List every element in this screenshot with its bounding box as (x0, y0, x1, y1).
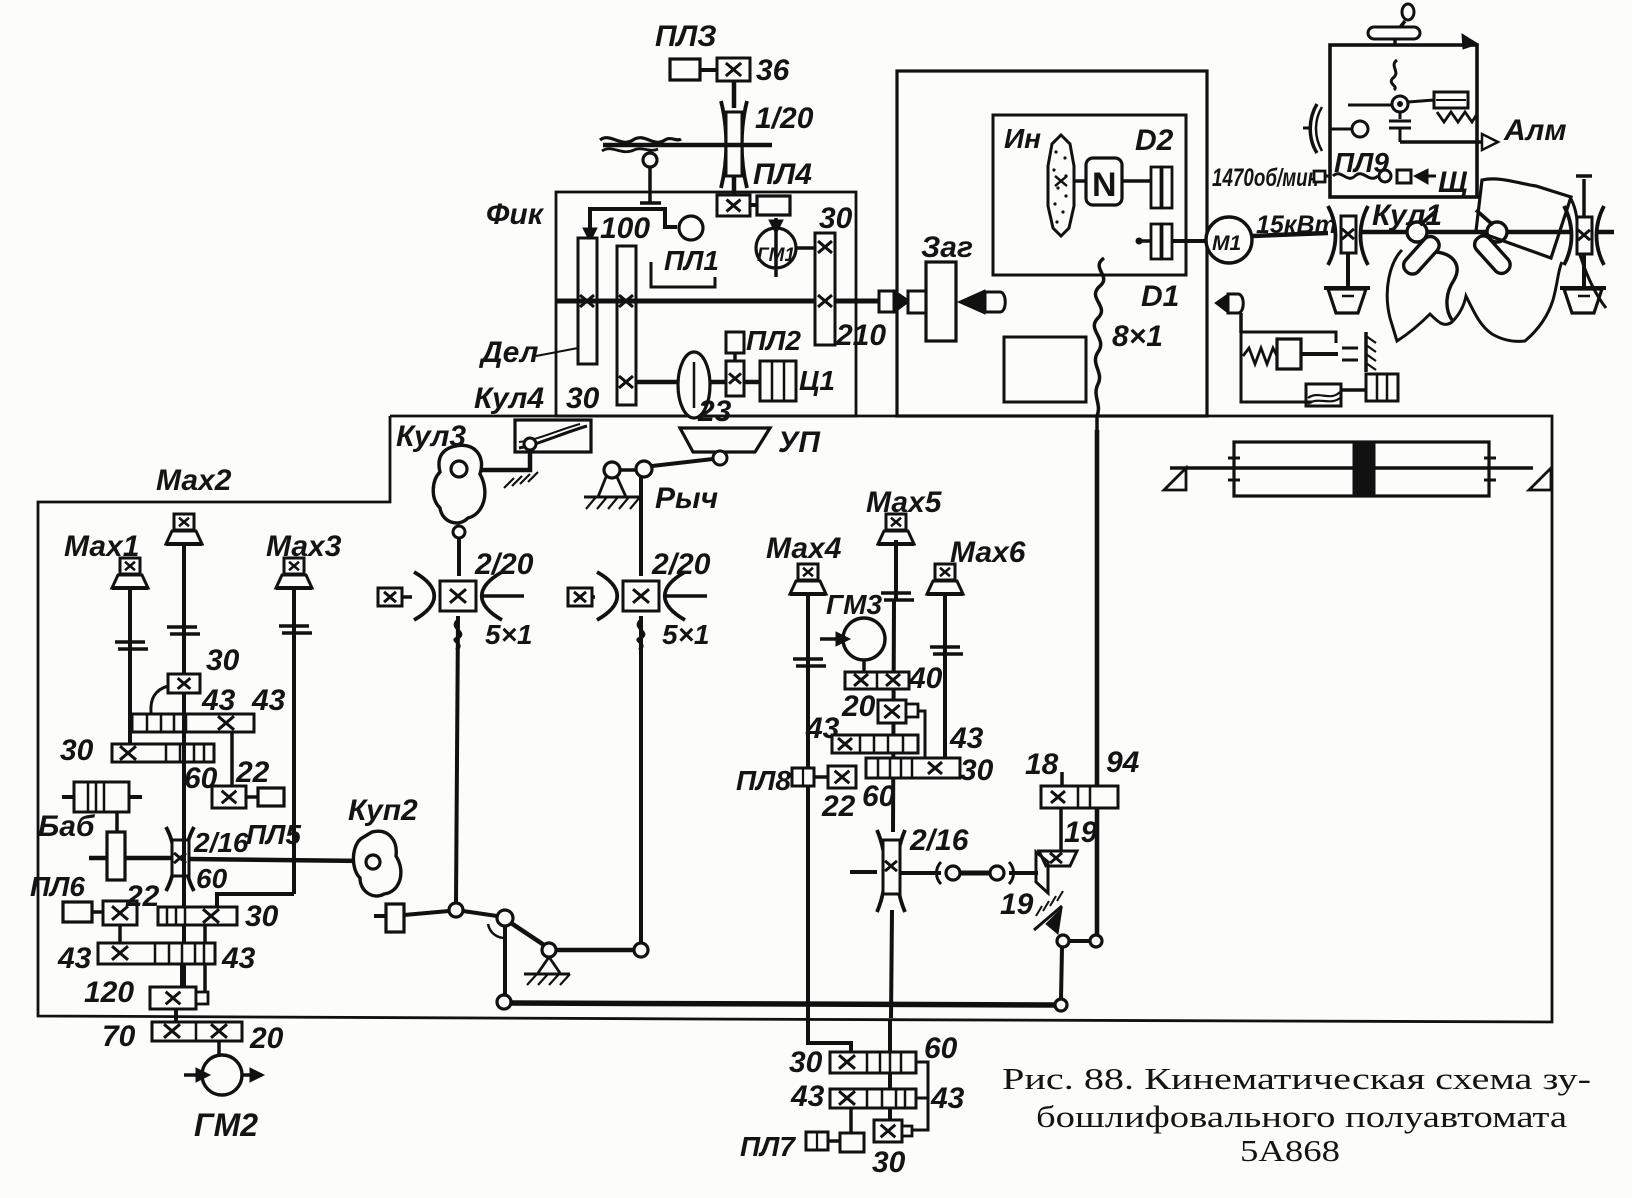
follower band 2 (1471, 233, 1513, 277)
wire dog clutch shaft (850, 870, 877, 874)
wire stub (592, 595, 595, 599)
svg-text:Баб: Баб (38, 810, 96, 843)
break Мах2 (167, 625, 197, 629)
svg-text:30: 30 (819, 202, 853, 235)
link joint left (497, 995, 511, 1009)
contact square (1397, 170, 1411, 183)
wire mid shaft to bottom gears (888, 1019, 892, 1122)
pivot circle Кул3 (451, 461, 467, 477)
svg-text:Мах2: Мах2 (156, 464, 232, 497)
break Мах4 (793, 657, 823, 661)
svg-text:Алм: Алм (1503, 114, 1567, 147)
svg-text:1470об/мин: 1470об/мин (1212, 164, 1319, 192)
break Мах6 (930, 645, 960, 649)
svg-text:ПЛ5: ПЛ5 (246, 819, 301, 850)
svg-text:Рис. 88. Кинематическая схема: Рис. 88. Кинематическая схема зу- (1002, 1061, 1591, 1096)
gear column 30/210 (815, 233, 835, 345)
capacitor contact (1399, 112, 1402, 119)
cam Кул3 kidney (433, 445, 485, 523)
hydraulic motor ГМ2 (202, 1055, 242, 1095)
master cam blob (1387, 250, 1562, 341)
wheel side bracket (1310, 104, 1317, 153)
wire follower shaft (374, 914, 386, 918)
template pan УП (680, 428, 770, 452)
worm column 2/20 (597, 572, 617, 620)
svg-text:22: 22 (821, 790, 856, 823)
gear row 30-60 (112, 744, 214, 762)
support anvil left (1328, 289, 1366, 313)
crank joint F (634, 943, 648, 957)
handwheel Мах6 (935, 564, 955, 580)
support anvil right (1564, 289, 1602, 313)
main horizontal shaft to Куп2 (89, 856, 107, 861)
svg-text:43: 43 (251, 684, 286, 717)
svg-text:60: 60 (924, 1032, 958, 1065)
quill cone (1215, 294, 1228, 313)
right bevel column (1564, 206, 1572, 265)
link circle left (604, 462, 620, 478)
break Мах5 (881, 591, 911, 595)
long link bar (511, 1003, 1055, 1005)
pivot circle below Кул3 (453, 526, 465, 538)
cam drive Кул1 bevel (1328, 206, 1336, 265)
wire to piston 3-cell (1341, 388, 1366, 392)
wire stub (402, 595, 412, 599)
svg-text:ГМ1: ГМ1 (757, 245, 795, 266)
gear 36 on vertical shaft (717, 58, 750, 81)
handwheel Мах5 (886, 514, 906, 530)
frame: big middle enclosure box (38, 416, 1552, 1022)
svg-text:ПЛ1: ПЛ1 (664, 245, 719, 276)
wire Мах1 shaft (128, 588, 132, 748)
gear row 18/94 (1041, 786, 1118, 808)
hatched rocker support (1034, 906, 1062, 930)
svg-text:19: 19 (1000, 888, 1034, 921)
wire to Алм with open arrow (1400, 140, 1482, 144)
wire stub above 18 (1060, 772, 1064, 786)
hydraulic cylinder (1234, 442, 1489, 496)
wire N box to D2 (1122, 179, 1151, 183)
link crank to D (511, 923, 544, 945)
svg-text:210: 210 (835, 319, 886, 352)
hatch support near Кул4 (504, 478, 514, 488)
gear column D2 (1151, 167, 1161, 208)
svg-text:ПЛ2: ПЛ2 (746, 325, 801, 356)
hook curve (151, 686, 168, 713)
contact circle (1379, 170, 1391, 182)
svg-text:30: 30 (960, 754, 994, 787)
svg-text:ПЛ4: ПЛ4 (753, 158, 812, 191)
svg-text:43: 43 (57, 942, 92, 975)
wire 43 down to ПЛ7 (849, 1108, 853, 1133)
svg-text:43: 43 (930, 1082, 965, 1115)
svg-text:М1: М1 (1212, 232, 1241, 255)
bent lever flag (1039, 851, 1077, 866)
wire quill down to frame (1239, 313, 1243, 333)
wire Мах3 elbow to gear 30 (217, 894, 294, 908)
svg-text:30: 30 (872, 1146, 906, 1179)
svg-text:43: 43 (221, 942, 256, 975)
wire right arm to damper (1408, 100, 1434, 102)
link A-B (1069, 939, 1090, 943)
wire left arm (1348, 104, 1392, 107)
gear ПЛ8 (828, 766, 856, 788)
wire 43 down to ПЛ5 (230, 732, 234, 788)
svg-text:ГМ2: ГМ2 (194, 1107, 258, 1143)
wire D1 shaft to M1 (1136, 239, 1151, 243)
gear ПЛ5 (212, 786, 246, 808)
lever link bar (652, 459, 713, 466)
gear row 30 mid (866, 758, 960, 778)
stub square on left edge (1314, 171, 1325, 182)
gear ПЛ6 (103, 901, 137, 925)
main shaft of dividing train (556, 299, 856, 304)
svg-text:20: 20 (841, 690, 876, 723)
roller circle (1352, 121, 1368, 137)
fixing plunger circle (643, 153, 657, 167)
wire right column up (1582, 179, 1586, 217)
cam box Кул4 (515, 420, 591, 452)
wire stub to 120 tab (203, 964, 207, 996)
hatched wall (1364, 332, 1368, 372)
leaf spring pack (1306, 384, 1341, 406)
wire to ГМ2 (217, 1041, 221, 1055)
svg-text:Кул4: Кул4 (474, 382, 544, 415)
wire ПЛ6 to 43 row (118, 925, 122, 944)
wavy wire in box (1391, 60, 1397, 90)
gear row 30-60 bottom (830, 1052, 916, 1073)
handwheel Мах1 (120, 558, 140, 574)
lever support Рыч (598, 477, 626, 497)
dog clutch (937, 862, 942, 884)
cylinder Ц1 (hatched) (760, 361, 796, 401)
svg-text:УП: УП (778, 426, 821, 459)
gear row 30 (lower left) (158, 907, 237, 925)
handwheel Мах4 (798, 564, 818, 580)
hydraulic motor ГМ3 (843, 618, 885, 660)
handwheel Мах2 (174, 514, 194, 530)
gear sleeve 100 (tall, two meshes) (617, 246, 636, 405)
svg-text:1/20: 1/20 (755, 102, 814, 135)
svg-text:ПЛ8: ПЛ8 (736, 765, 791, 796)
svg-text:30: 30 (566, 382, 600, 415)
coupling to workpiece (879, 291, 894, 312)
cap ticks left (1228, 457, 1240, 460)
wire Мах2 shaft upper (182, 544, 186, 676)
rocker joint B (1090, 935, 1102, 947)
grinding wheel (dotted lens) (1048, 135, 1074, 236)
svg-text:ПЛ7: ПЛ7 (740, 1131, 796, 1162)
svg-text:2/20: 2/20 (651, 548, 711, 581)
bracket under ПЛ1 (651, 262, 715, 287)
wire Мах2 shaft lower (182, 692, 186, 987)
svg-text:5А868: 5А868 (1240, 1133, 1340, 1168)
piston ПЛ6 (63, 902, 92, 922)
index disc (678, 352, 710, 418)
svg-text:ПЛ6: ПЛ6 (30, 871, 85, 902)
wire Кул3 to Кул4 (466, 450, 530, 470)
link joint at bar (1055, 999, 1067, 1011)
wire Мах3 shaft (292, 588, 296, 894)
piston ПЛ2 (726, 332, 744, 353)
support under D (538, 957, 549, 973)
knob on top (1402, 4, 1414, 20)
svg-text:5×1: 5×1 (662, 619, 710, 650)
svg-text:2/20: 2/20 (474, 548, 534, 581)
wire long vertical feed shaft (1095, 430, 1100, 936)
svg-text:Ин: Ин (1004, 123, 1041, 154)
svg-text:ПЛЗ: ПЛЗ (655, 20, 716, 53)
svg-text:43: 43 (949, 722, 984, 755)
gear square with X (378, 588, 402, 606)
svg-text:Заг: Заг (921, 231, 973, 264)
worm column 2/20 (414, 572, 434, 620)
wire mid vertical below 2/16 (891, 910, 892, 1018)
break squiggle (455, 620, 461, 650)
follower rect under Куп2 (386, 904, 404, 932)
piston ПЛЗ (670, 59, 700, 80)
svg-text:60: 60 (196, 863, 228, 894)
gear ПЛ2 (726, 361, 744, 396)
svg-text:43: 43 (790, 1080, 825, 1113)
gap ticks (1342, 347, 1358, 350)
svg-text:36: 36 (756, 54, 790, 87)
spring (1243, 348, 1277, 364)
flexible shaft wavy symbol (600, 138, 681, 143)
piston rod (1301, 352, 1338, 356)
wire Мах6 shaft (943, 594, 947, 758)
rocker joint A (1057, 935, 1069, 947)
wire right column down (1582, 253, 1586, 289)
follower roller 1 (1407, 222, 1427, 242)
svg-text:19: 19 (1064, 816, 1098, 849)
svg-text:Фик: Фик (486, 198, 545, 231)
break squiggle (638, 620, 644, 650)
follower stick 2 (1476, 210, 1493, 225)
svg-text:ГМ3: ГМ3 (826, 589, 883, 620)
svg-text:23: 23 (697, 395, 732, 428)
valve triangle (1414, 169, 1428, 184)
gear 30 bottom (874, 1120, 902, 1142)
hydraulic motor ГМ1 (756, 228, 796, 268)
break Мах1 (115, 640, 145, 644)
svg-text:Ц1: Ц1 (799, 365, 835, 396)
table rect below (1004, 337, 1086, 402)
cap ticks right (1484, 457, 1496, 460)
piston (1277, 339, 1301, 369)
svg-text:22: 22 (235, 756, 270, 789)
piston ПЛ8 (792, 768, 814, 786)
pivot circle Куп2 (366, 855, 380, 869)
wire shaft to roller 1 (1362, 230, 1408, 235)
frame: PL9 dresser box (1330, 45, 1477, 197)
svg-text:2/16: 2/16 (193, 827, 249, 858)
svg-text:Щ: Щ (1438, 166, 1468, 199)
svg-text:Куп2: Куп2 (348, 794, 418, 827)
svg-text:5×1: 5×1 (485, 619, 533, 650)
wire to 70/20 row (174, 1009, 178, 1022)
gear square with X (568, 588, 592, 606)
workpiece Заг rect (926, 262, 956, 341)
motor N box (1086, 158, 1122, 205)
plunger circle ПЛ1 (679, 216, 703, 240)
handwheel Мах3 (284, 558, 304, 574)
wire 30row to 43row stub (203, 925, 207, 944)
link D to F (556, 948, 634, 953)
svg-text:Мах4: Мах4 (766, 532, 842, 565)
svg-text:100: 100 (600, 212, 650, 245)
damper box (1434, 92, 1468, 108)
svg-text:8×1: 8×1 (1112, 320, 1163, 353)
wire Мах4 shaft (806, 594, 810, 1017)
gear 20 with tab (878, 700, 906, 723)
piston ПЛ7 (806, 1132, 828, 1150)
svg-text:Рыч: Рыч (655, 482, 718, 515)
wire crank down to bar (503, 926, 507, 995)
gear row 43-43 bottom (830, 1089, 916, 1108)
svg-text:2/16: 2/16 (909, 824, 969, 857)
piston ПЛ5 (258, 788, 284, 806)
gear row 43-43 upper (132, 714, 254, 732)
gear ПЛ4 with piston (717, 195, 750, 216)
boot curve right (1571, 199, 1606, 308)
crank joint D (542, 943, 556, 957)
spring zigzag (1437, 112, 1477, 122)
wire shaft roller2 to right bevel (1427, 230, 1487, 235)
frame: Fik gearbox box (556, 192, 856, 416)
corner arrow (1462, 34, 1478, 49)
svg-text:40: 40 (908, 662, 943, 695)
svg-text:94: 94 (1106, 746, 1140, 779)
profile template plate (1476, 179, 1571, 258)
link circle right (Рыч pivot) (636, 461, 652, 477)
follower roller 2 (1487, 222, 1507, 242)
svg-text:30: 30 (60, 734, 94, 767)
svg-text:43: 43 (201, 684, 236, 717)
wire Мах4 elbow to bottom gears (808, 1017, 851, 1053)
rack follower (107, 832, 125, 880)
wire ГМ1 to gear 30 (796, 246, 815, 250)
wire Рыч vertical shaft (639, 477, 643, 576)
follower stick 1 (1420, 210, 1437, 225)
bracket 60-43 (911, 1062, 928, 1130)
motor M1 (1206, 217, 1252, 263)
wire shaft from gear 36 down to worm (732, 81, 737, 108)
frame: Zag (workpiece) box (897, 71, 1207, 416)
wire tab elbow to row (918, 711, 925, 760)
svg-text:30: 30 (245, 900, 279, 933)
svg-text:30: 30 (206, 644, 240, 677)
gear row 70-20 (152, 1022, 242, 1041)
wavy contact wire (1333, 174, 1378, 179)
cam Куп2 kidney (353, 831, 400, 896)
svg-text:22: 22 (125, 880, 160, 913)
wire plunger to box edge (648, 167, 652, 203)
svg-text:18: 18 (1025, 748, 1059, 781)
svg-text:70: 70 (102, 1020, 136, 1053)
handle bar (1368, 27, 1420, 39)
wire A down (1061, 947, 1062, 999)
wire M1 to Кул1 (1252, 233, 1328, 236)
wire Кул3 vertical shaft (457, 538, 461, 576)
wire junction to crank (463, 911, 497, 916)
worm drive 1/20 (721, 101, 726, 188)
gear 120 (150, 987, 196, 1009)
wire Баб to rack (115, 812, 119, 832)
rod foot left (1164, 468, 1186, 490)
frame: grinding wheel inner box (993, 115, 1186, 275)
svg-text:D2: D2 (1135, 124, 1174, 157)
wire main shaft into coupling (856, 299, 879, 304)
3-cell piston (1366, 374, 1398, 401)
lower shaft to index disc (636, 380, 678, 385)
svg-text:Дел: Дел (478, 336, 539, 369)
piston Баб (62, 795, 74, 799)
wire elbow with down arrow to dividing gear (590, 209, 677, 238)
piston bar (1354, 442, 1374, 496)
worm 2/16 mid (877, 830, 885, 912)
svg-text:Кул3: Кул3 (396, 420, 466, 453)
svg-text:бошлифовального полуавтомата: бошлифовального полуавтомата (1036, 1099, 1567, 1134)
svg-text:N: N (1092, 166, 1117, 204)
svg-text:30: 30 (789, 1046, 823, 1079)
tail center cone (958, 290, 985, 314)
piston rod (1170, 466, 1354, 470)
wire lever to gear 18 (1059, 808, 1063, 851)
rod foot right (1529, 468, 1551, 490)
wire junction circle (449, 903, 463, 917)
break Мах3 (279, 624, 309, 628)
pivot joint (1392, 96, 1408, 112)
wire wheel to N box (1074, 179, 1086, 183)
svg-text:60: 60 (862, 780, 896, 813)
gear sleeve Дел (tall left) (578, 238, 597, 364)
pivot circle in Кул4 (524, 438, 536, 450)
svg-text:D1: D1 (1141, 280, 1179, 313)
svg-text:20: 20 (249, 1022, 284, 1055)
wire Мах5 shaft (894, 540, 898, 600)
gear row 43-43 lower (98, 943, 215, 964)
gear row 40 (845, 672, 909, 689)
cam hook curve (1436, 252, 1457, 320)
crank circle (497, 910, 513, 926)
gear row 43 mid (832, 735, 918, 753)
wire Кул1 down to support (1346, 253, 1350, 289)
worm 2/16 left (166, 827, 174, 891)
follower band 1 (1400, 233, 1442, 277)
lead screw 8x1 wavy (1094, 258, 1104, 432)
wire ПЛ2 to Ц1 (744, 380, 760, 385)
gear column D1 (1151, 224, 1161, 259)
wire Мах5 shaft to 2/16 (893, 600, 894, 832)
gear 30 on Мах2 shaft (168, 674, 200, 693)
svg-text:Мах6: Мах6 (950, 536, 1026, 569)
spring piston frame (1241, 332, 1336, 402)
svg-text:120: 120 (84, 976, 134, 1009)
wire disc to ПЛ2 (710, 380, 726, 385)
